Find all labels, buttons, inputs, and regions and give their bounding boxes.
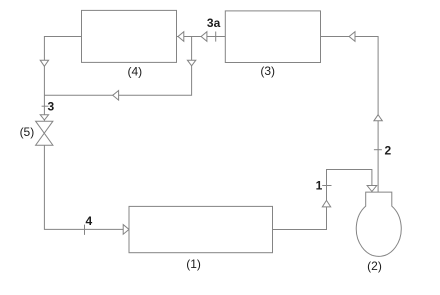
svg-text:4: 4	[85, 214, 92, 228]
svg-text:(2): (2)	[367, 259, 382, 273]
svg-text:(3): (3)	[260, 64, 275, 78]
svg-text:1: 1	[316, 179, 323, 193]
svg-text:3a: 3a	[207, 16, 221, 30]
svg-text:(5): (5)	[20, 125, 35, 139]
svg-text:2: 2	[385, 143, 392, 157]
svg-text:(1): (1)	[186, 257, 201, 271]
svg-text:(4): (4)	[127, 65, 142, 79]
svg-text:3: 3	[48, 100, 55, 114]
